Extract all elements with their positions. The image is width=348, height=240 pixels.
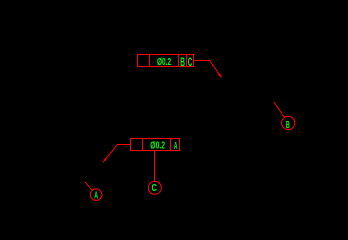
svg-text:B: B — [286, 120, 290, 131]
FCF1 cell separator 1 — [149, 55, 151, 67]
FCF2 cell separator 1 — [142, 139, 144, 151]
datum C connector wire — [154, 151, 156, 182]
leader wire from FCF2 — [103, 145, 131, 163]
feature control frame FCF2 outer box — [131, 139, 180, 151]
feature control frame FCF1 outer box — [138, 55, 194, 67]
svg-text:Ø0.2: Ø0.2 — [157, 57, 171, 68]
FCF1 cell separator 2 — [178, 55, 180, 67]
svg-text:A: A — [174, 140, 178, 152]
leader wire from FCF1 — [194, 61, 222, 78]
datum B connector wire — [274, 102, 285, 117]
svg-text:B: B — [180, 55, 185, 69]
svg-text:Ø0.2: Ø0.2 — [150, 141, 165, 152]
datum circle B — [282, 116, 295, 129]
datum circle A — [90, 189, 102, 201]
datum A connector wire — [85, 182, 92, 190]
svg-text:A: A — [94, 190, 98, 202]
svg-text:C: C — [188, 55, 193, 69]
FCF1 cell separator 3 — [186, 55, 188, 67]
leader arrowhead of FCF1 — [218, 73, 222, 77]
leader arrowhead of FCF2 — [103, 158, 107, 162]
svg-text:C: C — [152, 183, 158, 194]
datum circle C — [148, 181, 161, 194]
FCF2 cell separator 2 — [170, 139, 172, 151]
